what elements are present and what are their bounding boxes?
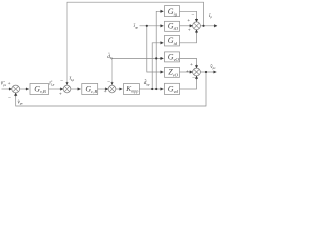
svg-text:+: + <box>59 92 62 98</box>
svg-text:+: + <box>187 18 190 24</box>
svg-text:−: − <box>107 79 110 85</box>
svg-text:−: − <box>60 78 63 84</box>
svg-text:v̂*pv: v̂*pv <box>1 80 7 87</box>
svg-text:v̂pv: v̂pv <box>210 64 216 70</box>
svg-text:v̂pv: v̂pv <box>17 99 23 105</box>
svg-text:+: + <box>190 62 193 68</box>
svg-text:−: − <box>192 12 195 18</box>
svg-text:−: − <box>192 76 195 82</box>
svg-text:+: + <box>8 81 11 87</box>
svg-text:+: + <box>104 89 107 95</box>
svg-text:d̂bp: d̂bp <box>144 79 150 86</box>
svg-text:īLp: īLp <box>70 76 75 82</box>
svg-text:ī*Lp: ī*Lp <box>49 80 54 87</box>
svg-text:−: − <box>8 95 11 101</box>
svg-text:d̂bp: d̂bp <box>107 53 113 60</box>
svg-text:īop: īop <box>134 23 139 29</box>
svg-text:+: + <box>188 27 191 33</box>
svg-text:īp: īp <box>209 13 212 19</box>
svg-text:+: + <box>186 69 189 75</box>
